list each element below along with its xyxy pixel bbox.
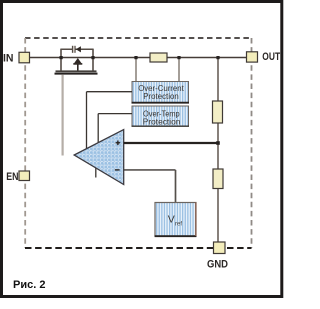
svg-text:V: V	[168, 214, 175, 226]
svg-text:GND: GND	[207, 259, 228, 271]
svg-text:IN: IN	[3, 52, 14, 64]
svg-text:Protection: Protection	[143, 92, 179, 101]
svg-text:EN: EN	[6, 171, 18, 183]
svg-text:Рис. 2: Рис. 2	[13, 279, 45, 291]
svg-text:Protection: Protection	[143, 118, 181, 127]
svg-text:OUT: OUT	[262, 51, 280, 63]
svg-text:ref: ref	[175, 222, 182, 228]
